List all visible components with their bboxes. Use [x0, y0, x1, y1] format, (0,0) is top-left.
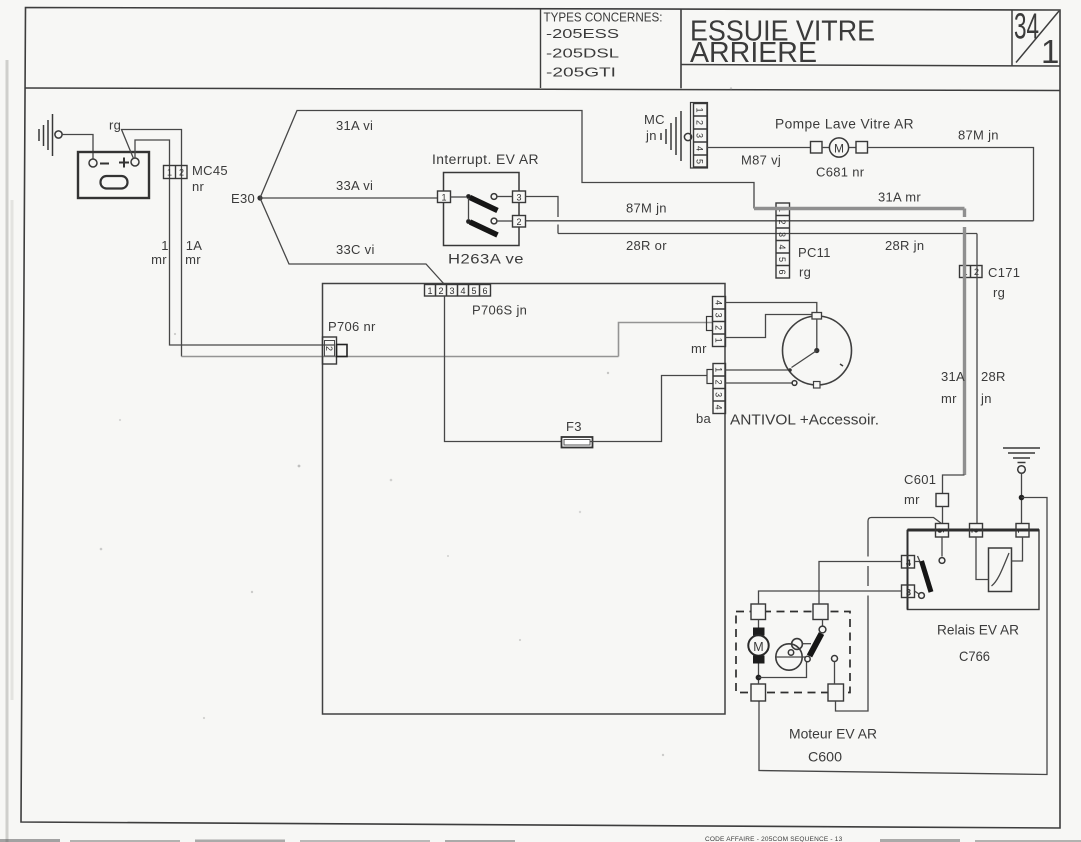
connector mr pins 4-1 [707, 297, 726, 347]
wire 33A vi [260, 197, 438, 199]
wire contact to pin2 [497, 220, 513, 222]
internal contacts [451, 196, 467, 198]
svg-text:C601: C601 [904, 472, 936, 487]
wire 28R or [558, 233, 977, 235]
wire ground down to pin1 [1021, 474, 1023, 524]
scan speckles [100, 87, 733, 756]
ground junction node [1019, 495, 1025, 501]
page number box [1011, 10, 1013, 66]
relay arm [922, 561, 932, 592]
svg-text:2: 2 [438, 286, 443, 296]
svg-text:Interrupt. EV AR: Interrupt. EV AR [432, 152, 539, 167]
svg-text:P706S jn: P706S jn [472, 303, 527, 318]
relay top bus thick [908, 529, 1040, 532]
wire ground branch to motor loop [759, 498, 1047, 775]
svg-text:mr: mr [691, 341, 707, 356]
motor zone [736, 518, 942, 765]
svg-text:1: 1 [167, 168, 172, 178]
pin 1 [438, 191, 451, 203]
bottom scan edge [0, 836, 1081, 842]
svg-text:3: 3 [714, 313, 724, 318]
svg-text:2: 2 [970, 528, 980, 533]
svg-text:C681 nr: C681 nr [816, 165, 865, 180]
connector square bottom-mid [828, 684, 844, 701]
svg-text:MC: MC [644, 112, 665, 127]
svg-text:1: 1 [1041, 33, 1059, 70]
wire battery plus through MC45 pin2 down (1A mr) [122, 130, 182, 357]
crossing gap pin3 wire / 87M [556, 217, 560, 225]
svg-text:28R or: 28R or [626, 238, 667, 253]
svg-text:M87 vj: M87 vj [741, 153, 781, 168]
svg-text:2: 2 [516, 217, 521, 227]
svg-text:3: 3 [695, 133, 705, 138]
connector square top-left [751, 604, 766, 620]
wire 28R jn vertical [976, 234, 978, 524]
pin5 contact [941, 537, 943, 557]
wire bottom-mid to relay pin5 [836, 518, 942, 712]
connector strip P706S pins 1-6 [425, 285, 491, 297]
pin 5 [936, 524, 949, 538]
svg-text:5: 5 [695, 159, 705, 164]
pin 4 [902, 556, 915, 569]
svg-text:3: 3 [714, 392, 724, 397]
svg-text:87M jn: 87M jn [626, 201, 667, 216]
pin 2 [513, 216, 526, 228]
pin 3 [902, 585, 915, 598]
svg-text:M: M [753, 640, 763, 654]
pin 2 [970, 524, 983, 538]
wires ba to key [726, 369, 790, 371]
svg-text:6: 6 [777, 269, 787, 274]
svg-text:Relais EV AR: Relais EV AR [937, 622, 1019, 638]
wire pin3 to 28R or [526, 197, 559, 234]
svg-text:4: 4 [906, 558, 911, 568]
wire mr pin4 to key [726, 303, 817, 317]
wire 87M jn pump out [868, 148, 1034, 221]
open contact circles [491, 194, 497, 200]
svg-text:jn: jn [645, 128, 657, 143]
wire 31A mr vertical (dashed start) [963, 209, 966, 218]
svg-text:31A vi: 31A vi [336, 118, 373, 133]
svg-text:M: M [834, 142, 844, 156]
tick right [840, 364, 843, 366]
svg-text:F3: F3 [566, 419, 582, 434]
svg-text:2: 2 [714, 325, 724, 330]
svg-text:CODE AFFAIRE - 205COM SEQUENCE: CODE AFFAIRE - 205COM SEQUENCE - 13 [705, 836, 843, 842]
svg-text:1: 1 [161, 238, 169, 253]
title box bottom line [681, 65, 1060, 67]
motor dashed housing C600 [736, 612, 850, 693]
svg-text:mr: mr [904, 492, 920, 507]
pump zone [644, 103, 1034, 524]
wire relay pin4 to top-mid [819, 562, 902, 605]
wire mr pin1 to key (gray) [726, 315, 812, 338]
motor M [748, 620, 768, 685]
svg-text:33A vi: 33A vi [336, 178, 373, 193]
connector P706 [323, 337, 348, 364]
header [541, 6, 1061, 89]
svg-text:Moteur EV AR: Moteur EV AR [789, 726, 877, 742]
relay coil [989, 548, 1012, 592]
ignition switch circle [783, 316, 852, 385]
wire contact to pin3 [497, 196, 513, 198]
svg-text:jn: jn [980, 391, 992, 406]
svg-text:28R jn: 28R jn [885, 238, 924, 253]
switch zone [432, 152, 1034, 267]
connector ba pins 1-4 [707, 364, 726, 414]
svg-text:1: 1 [1016, 528, 1026, 533]
bottom notch [814, 382, 821, 389]
svg-text:-205ESS: -205ESS [546, 27, 619, 41]
wire strip pin2 down to fuse [445, 296, 564, 442]
svg-text:rg: rg [993, 285, 1005, 300]
svg-text:31A mr: 31A mr [878, 190, 921, 205]
connector PC11 pins 1-6 [776, 203, 790, 278]
connector MC jn strip pins 1-5 [691, 103, 708, 169]
cam [776, 644, 802, 670]
svg-text:1: 1 [427, 286, 432, 296]
svg-text:PC11: PC11 [798, 245, 831, 260]
svg-text:rg: rg [109, 118, 121, 133]
svg-text:4: 4 [460, 286, 465, 296]
wire ground to battery minus [62, 135, 93, 160]
node E30 [257, 195, 262, 200]
svg-text:2: 2 [714, 380, 724, 385]
svg-text:5: 5 [936, 528, 946, 533]
wire pin2 to coil [976, 537, 989, 580]
svg-text:E30: E30 [231, 191, 255, 206]
crossing gaps (no-connection breaks) [866, 557, 870, 567]
svg-text:2: 2 [324, 346, 334, 351]
wire relay pin3 to motor plus [759, 591, 902, 604]
types box borders [540, 9, 542, 88]
svg-text:ba: ba [696, 411, 712, 426]
fuse F3 [562, 437, 593, 448]
svg-text:3: 3 [516, 193, 521, 203]
svg-text:3: 3 [777, 232, 787, 237]
ground relay top right [1003, 448, 1040, 473]
wire motor junction to park arm pivot [759, 662, 807, 678]
svg-text:2: 2 [695, 120, 705, 125]
pin 3 [513, 191, 526, 203]
svg-text:1: 1 [714, 338, 724, 343]
svg-text:87M jn: 87M jn [958, 128, 999, 143]
svg-text:2: 2 [777, 219, 787, 224]
connector square bottom-left [751, 684, 766, 701]
svg-text:1: 1 [714, 367, 724, 372]
battery zone [39, 111, 754, 357]
svg-text:Pompe Lave Vitre AR: Pompe Lave Vitre AR [775, 117, 914, 132]
svg-text:1: 1 [695, 107, 705, 112]
pin 1 [1016, 524, 1029, 538]
big box zone [323, 284, 726, 715]
svg-text:-205DSL: -205DSL [546, 47, 619, 61]
svg-text:4: 4 [714, 300, 724, 305]
wire M87 vj [707, 147, 811, 149]
svg-text:28R: 28R [981, 369, 1006, 384]
header band bottom line [26, 88, 1061, 91]
connector C171 [960, 266, 983, 278]
wire battery plus through MC45 pin1 down (1 mr) [135, 140, 334, 345]
relay C766 box [908, 530, 1040, 610]
svg-text:1A: 1A [186, 238, 203, 253]
svg-text:TYPES CONCERNES:: TYPES CONCERNES: [544, 11, 663, 25]
relay arm pivot cross [915, 556, 922, 564]
svg-text:4: 4 [714, 405, 724, 410]
svg-text:MC45: MC45 [192, 163, 228, 178]
svg-text:3: 3 [449, 286, 454, 296]
svg-text:mr: mr [151, 252, 167, 267]
svg-text:3: 3 [906, 588, 911, 598]
svg-text:6: 6 [482, 286, 487, 296]
key shaft [816, 319, 818, 351]
wire gray to mr connector [619, 323, 713, 357]
switch arm upper [470, 198, 498, 211]
svg-text:33C vi: 33C vi [336, 242, 375, 257]
svg-text:H263A ve: H263A ve [448, 252, 524, 267]
svg-text:rg: rg [799, 265, 811, 280]
svg-text:31A: 31A [941, 369, 965, 384]
svg-text:P706 nr: P706 nr [328, 319, 376, 334]
wire 1A mr across gray [182, 356, 619, 358]
wire 31A mr thick [754, 207, 965, 210]
park switch arm [805, 656, 810, 661]
connector C601 [936, 494, 949, 507]
box P706S [323, 284, 726, 715]
key top notch [812, 313, 822, 320]
svg-text:ANTIVOL +Accessoir.: ANTIVOL +Accessoir. [730, 412, 879, 429]
svg-text:ARRIERE: ARRIERE [690, 37, 817, 69]
svg-text:-205GTI: -205GTI [546, 66, 616, 80]
wire 33C vi [260, 198, 445, 285]
battery [78, 152, 149, 198]
svg-text:5: 5 [777, 257, 787, 262]
svg-text:1: 1 [441, 193, 446, 203]
svg-text:4: 4 [777, 244, 787, 249]
svg-text:C171: C171 [988, 265, 1020, 280]
wire C601 to relay pin5 [942, 507, 944, 524]
wire 31A vi [260, 111, 754, 209]
scan left margin smudge [7, 60, 12, 842]
svg-text:4: 4 [695, 146, 705, 151]
svg-text:2: 2 [179, 168, 184, 178]
wire pin1 to coil [1012, 537, 1023, 561]
ground MC (battery earth) [39, 114, 62, 156]
svg-text:mr: mr [185, 252, 201, 267]
svg-text:nr: nr [192, 179, 205, 194]
svg-text:5: 5 [471, 286, 476, 296]
svg-text:C766: C766 [959, 648, 990, 664]
connector square top-mid [813, 604, 828, 620]
relay zone [759, 448, 1047, 775]
switch H263A box [444, 173, 520, 246]
connector MC45 [164, 166, 188, 179]
svg-text:C600: C600 [808, 749, 842, 765]
key pointer [792, 351, 817, 368]
park contact [832, 656, 838, 662]
antivol zone [726, 303, 880, 429]
wire fuse to ba connector [591, 376, 708, 442]
svg-text:mr: mr [941, 391, 957, 406]
wire 87M jn from pin2 [526, 220, 1034, 222]
svg-text:34: 34 [1014, 6, 1039, 47]
switch arm lower [470, 222, 498, 235]
